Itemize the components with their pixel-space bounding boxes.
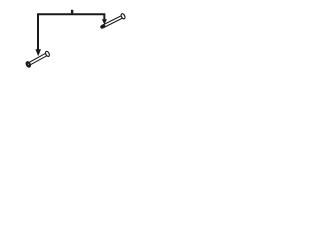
wire arrowhead left — [35, 49, 41, 56]
electrode rod bottom — [29, 55, 48, 65]
wire — [38, 14, 104, 50]
wire arrowhead right — [102, 19, 107, 24]
electrode rod top — [104, 18, 124, 28]
node tick 1 — [71, 10, 73, 15]
